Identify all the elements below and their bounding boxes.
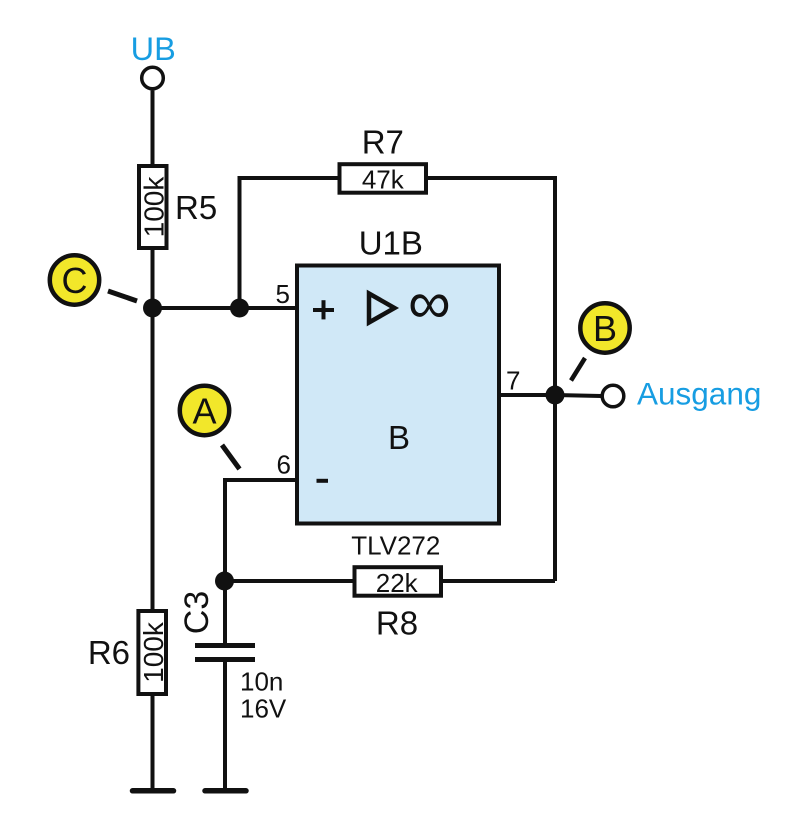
node A junction	[215, 572, 234, 591]
wire right vertical	[553, 176, 557, 581]
wire R8 left	[225, 579, 354, 583]
wire node C to pin 5	[153, 306, 298, 310]
wire pin 6 horizontal	[225, 478, 297, 482]
svg-text:B: B	[593, 308, 617, 349]
resistor R5	[139, 166, 218, 248]
wire R7 left	[238, 176, 342, 180]
svg-text:R7: R7	[362, 124, 404, 161]
svg-text:C: C	[62, 260, 88, 301]
svg-text:10n: 10n	[240, 667, 283, 697]
terminal UB	[142, 67, 164, 89]
svg-text:U1B: U1B	[359, 225, 423, 262]
wire pin 7 to junction	[499, 393, 555, 397]
svg-text:R8: R8	[376, 605, 418, 642]
svg-text:Ausgang: Ausgang	[637, 376, 761, 412]
svg-text:C3: C3	[178, 591, 216, 634]
node C junction	[143, 299, 162, 318]
svg-text:7: 7	[506, 365, 520, 395]
svg-text:TLV272: TLV272	[351, 531, 440, 561]
svg-text:R5: R5	[175, 189, 217, 226]
wire pin 6 vertical	[223, 478, 227, 581]
capacitor C3	[178, 591, 287, 724]
svg-text:6: 6	[277, 449, 291, 479]
resistor R7	[340, 124, 427, 195]
wire feedback vertical left	[238, 176, 242, 308]
resistor R8	[355, 567, 442, 641]
wire R6 to ground	[151, 696, 155, 791]
op-amp U1B	[297, 225, 499, 561]
wire R8 right	[440, 579, 555, 583]
svg-text:UB: UB	[131, 31, 176, 67]
ground under R6	[133, 788, 174, 794]
resistor R6	[88, 611, 169, 694]
wire R5 to R6	[151, 250, 155, 609]
svg-text:A: A	[192, 391, 216, 432]
junction feedback tap	[230, 299, 249, 318]
label A	[180, 386, 240, 469]
svg-text:22k: 22k	[376, 568, 419, 598]
svg-text:R6: R6	[88, 634, 130, 671]
svg-text:16V: 16V	[240, 694, 287, 724]
svg-text:100k: 100k	[139, 176, 170, 238]
wire junction to C3	[223, 581, 227, 644]
terminal Ausgang	[602, 385, 624, 407]
label C	[50, 255, 137, 304]
wire UB to R5	[151, 91, 155, 166]
wire C3 to ground	[223, 662, 227, 791]
svg-text:B: B	[388, 419, 410, 456]
wire R7 right	[425, 176, 557, 180]
output junction	[546, 386, 565, 405]
svg-text:47k: 47k	[362, 165, 405, 195]
wire junction to output terminal	[555, 395, 601, 396]
ground under C3	[205, 788, 246, 794]
label B	[571, 303, 630, 380]
svg-text:5: 5	[276, 279, 290, 309]
svg-text:100k: 100k	[138, 621, 169, 683]
svg-text:∞: ∞	[408, 269, 451, 336]
